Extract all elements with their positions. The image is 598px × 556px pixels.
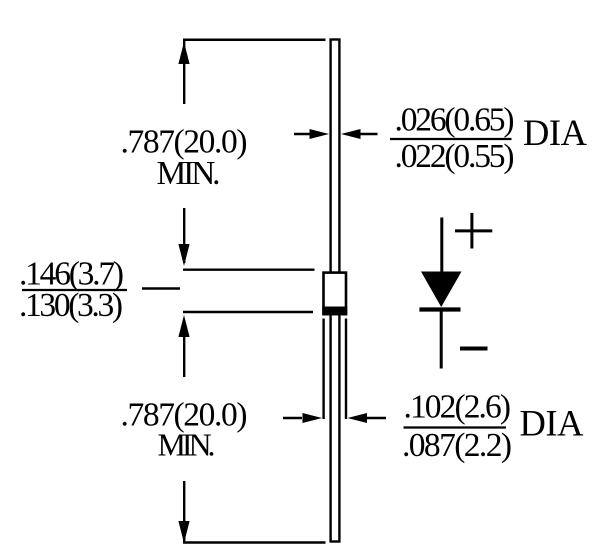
upper dimension down arrow — [178, 244, 189, 266]
label .087(2.2) — [402, 427, 512, 464]
label .787(20.0) upper — [121, 124, 248, 161]
lead wire (top and bottom lead outline) — [331, 40, 340, 542]
body diameter right arrow — [348, 413, 387, 423]
svg-text:MIN.: MIN. — [157, 155, 221, 192]
label DIA upper — [523, 112, 588, 153]
svg-text:.102(2.6): .102(2.6) — [404, 389, 512, 426]
label .026(0.65) — [395, 102, 515, 139]
upper .787 dimension line lower segment — [183, 208, 185, 263]
svg-text:.022(0.55): .022(0.55) — [395, 138, 515, 175]
diode symbol plus sign — [455, 213, 492, 249]
diode body cathode band — [322, 307, 347, 316]
body bottom extension line — [183, 311, 313, 313]
lower dimension down arrow — [178, 521, 189, 543]
lower .787 dimension line lower segment — [183, 481, 185, 542]
lower .787 dimension up arrow — [178, 315, 189, 337]
label MIN. lower — [158, 427, 216, 463]
label .130(3.3) — [19, 287, 123, 324]
label DIA lower — [520, 403, 585, 444]
body diameter right extension line — [345, 319, 347, 420]
lower .787 dimension line upper segment — [183, 330, 185, 377]
label .146(3.7) — [19, 256, 124, 293]
leader dash from .146/.130 label — [142, 287, 180, 289]
body top extension line — [183, 269, 315, 271]
top extension line from lead top to dimension line — [183, 38, 326, 41]
label .787(20.0) lower — [121, 397, 248, 434]
fraction bar .102/.087 — [404, 426, 507, 428]
bottom extension line from lead bottom to dimension line — [183, 541, 326, 544]
label .102(2.6) — [404, 389, 512, 426]
diode body outline — [324, 273, 347, 315]
label MIN. upper — [157, 155, 221, 192]
upper dimension up arrow — [178, 42, 189, 64]
fraction bar .026/.022 — [390, 138, 512, 140]
body diameter left extension line — [322, 319, 324, 420]
svg-text:.087(2.2): .087(2.2) — [402, 427, 512, 464]
upper .787 dimension line upper segment — [183, 40, 185, 104]
svg-text:.130(3.3): .130(3.3) — [19, 287, 123, 324]
diode symbol cathode bar — [419, 307, 460, 311]
diode symbol cathode lead — [440, 311, 443, 369]
diode symbol triangle — [421, 272, 462, 308]
label .022(0.55) — [395, 138, 515, 175]
lead diameter left arrow — [294, 129, 329, 139]
fraction bar .146/.130 — [22, 289, 127, 291]
svg-text:DIA: DIA — [523, 112, 588, 153]
body diameter left arrow — [283, 413, 322, 423]
svg-text:MIN.: MIN. — [158, 427, 216, 463]
lead diameter right arrow — [341, 129, 378, 139]
svg-text:DIA: DIA — [520, 403, 585, 444]
diode symbol anode lead — [440, 218, 443, 274]
svg-text:.026(0.65): .026(0.65) — [395, 102, 515, 139]
diode symbol minus sign — [460, 347, 488, 351]
